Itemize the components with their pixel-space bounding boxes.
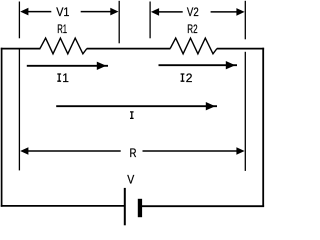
current arrow I head xyxy=(206,102,216,110)
label I1 xyxy=(57,71,69,85)
battery V negative plate (short thick) xyxy=(138,199,142,217)
resistor R1 xyxy=(40,38,87,54)
wire right vertical xyxy=(262,48,264,207)
resistance arrow R left head xyxy=(20,147,28,155)
voltage arrow V2 left head xyxy=(151,8,159,16)
current arrow I1 head xyxy=(97,62,107,70)
wire left vertical xyxy=(1,48,3,207)
resistance arrow R left line xyxy=(26,150,121,152)
label I2 xyxy=(181,71,193,85)
current arrow I1 xyxy=(27,65,108,67)
wire top-left horizontal segment xyxy=(1,48,41,50)
svg-text:V2: V2 xyxy=(187,5,199,19)
wire top-right horizontal segment xyxy=(217,48,264,50)
voltage arrow V2 right head xyxy=(236,8,244,16)
voltage arrow V1 right head xyxy=(110,8,118,16)
svg-text:2: 2 xyxy=(186,71,193,85)
svg-text:R2: R2 xyxy=(187,22,198,36)
current arrow I (total) xyxy=(56,105,217,107)
resistance arrow R right head xyxy=(236,147,244,155)
resistance arrow R right line xyxy=(143,150,239,152)
voltage arrow V2 right line xyxy=(211,11,238,13)
node bar: R span left delimiter xyxy=(18,49,20,170)
node bar: V1 span left delimiter xyxy=(18,2,20,39)
svg-text:R1: R1 xyxy=(57,22,67,36)
svg-text:1: 1 xyxy=(62,71,69,85)
resistor R2 xyxy=(170,38,217,54)
svg-text:V: V xyxy=(127,173,134,187)
svg-text:R: R xyxy=(130,146,137,160)
voltage arrow V2 left line xyxy=(157,11,183,13)
voltage arrow V1 left head xyxy=(20,8,28,16)
label I xyxy=(130,112,134,119)
node bar: V1 span right delimiter xyxy=(118,1,120,44)
node bar: V2 span left delimiter xyxy=(149,2,151,39)
current arrow I2 xyxy=(159,64,238,66)
svg-text:V1: V1 xyxy=(56,5,69,19)
node bar: V2 span right delimiter xyxy=(244,1,246,40)
node bar: R span right delimiter xyxy=(244,52,246,171)
voltage arrow V1 left line xyxy=(26,11,51,13)
wire bottom-left horizontal segment xyxy=(1,205,125,207)
wire bottom-right horizontal segment xyxy=(142,205,264,207)
current arrow I2 head xyxy=(226,61,236,69)
battery V positive plate (long) xyxy=(124,188,126,225)
wire top-middle segment between R1 and R2 xyxy=(87,48,171,50)
voltage arrow V1 right line xyxy=(81,11,112,13)
